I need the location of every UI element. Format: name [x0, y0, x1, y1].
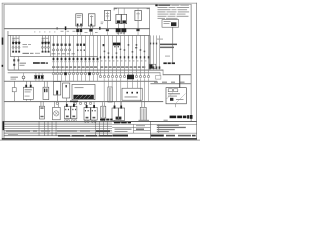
- L4 step-down right: [162, 70, 165, 76]
- right cable run L8: [150, 83, 190, 84]
- sheet edge left: [1, 3, 4, 140]
- wire label text row B right: [100, 66, 145, 68]
- company text line 1: [157, 125, 179, 126]
- B2 internal marks: [44, 89, 45, 93]
- B4 wire down: [65, 98, 68, 101]
- title block h-line 4: [134, 129, 151, 131]
- title block h-line 5: [112, 132, 197, 134]
- C2b: [91, 107, 97, 120]
- resistor bank R2 hatched: [140, 107, 146, 121]
- dimension arrow right: [147, 8, 149, 11]
- label midleft gray: [20, 63, 27, 64]
- X4 stub wires: [35, 73, 37, 75]
- aux contact 3: [18, 59, 20, 61]
- enclosure E1 drop wire: [178, 75, 181, 88]
- Q2 pole circles: [41, 46, 43, 48]
- aux contact 2: [13, 64, 15, 66]
- frame right border: [190, 4, 193, 121]
- B6 internal text: [125, 96, 138, 97]
- wire label text row A left: [52, 61, 98, 62]
- B3 wire down: [56, 95, 59, 101]
- X2 filled terminal b: [88, 72, 91, 75]
- gray text right of bar1: [139, 120, 150, 121]
- relay box K2: [88, 14, 95, 26]
- G1 cross: [55, 112, 59, 116]
- P1 wires up: [40, 102, 43, 107]
- contact marks under K3: [106, 29, 109, 31]
- label between breakers: [23, 44, 28, 45]
- C1b post: [73, 104, 75, 107]
- bus L9 bottom main: [4, 101, 163, 102]
- B5 internal text: [75, 87, 84, 88]
- junction box B6 wide: [122, 88, 142, 100]
- K5 internal symbol: [137, 12, 140, 20]
- K1 wires to bus: [76, 26, 79, 29]
- fuse F1 on bus: [65, 26, 67, 30]
- contactor pair C2a: [84, 107, 90, 120]
- label row above terminals: [52, 53, 56, 54]
- label left of K3: [101, 21, 104, 24]
- sheet edge right: [195, 3, 198, 140]
- title band dark bar 2: [114, 122, 120, 124]
- R1 feed wires: [101, 102, 104, 106]
- switch bank S1 contacts: [53, 44, 71, 51]
- legend box: [162, 20, 179, 28]
- bus L4: [8, 70, 164, 71]
- B6 terminal dots: [126, 92, 128, 94]
- revision table: [4, 121, 112, 137]
- schematic left border wire: [7, 31, 10, 70]
- sub-panel left edge wire: [9, 35, 12, 57]
- wire drops below X2 circles: [53, 75, 97, 81]
- control transformer T1: [113, 43, 121, 46]
- terminal circle stub wires: [22, 73, 24, 76]
- bus L7: [4, 81, 157, 82]
- relay box K5: [135, 10, 141, 20]
- contactor cluster under K4: [116, 28, 121, 32]
- aux circles under B5: [74, 102, 76, 104]
- Q2 feeder wires up: [41, 35, 44, 42]
- single terminal circle far left: [22, 76, 25, 79]
- title cell text row 3: [115, 131, 128, 132]
- notes line 3: [158, 9, 171, 10]
- title block v-line a: [132, 124, 134, 133]
- meter device M1: [149, 64, 156, 68]
- K2 internal symbol: [90, 15, 93, 23]
- vertical wires group W1 (x=53.5..97.5): [53, 35, 97, 71]
- right stub terminals: [150, 66, 161, 68]
- wire label text row B left: [52, 66, 97, 68]
- title block h-line 2: [112, 123, 197, 125]
- relay box K1: [76, 14, 83, 26]
- title block v-line c: [158, 124, 160, 133]
- E1 internal dark tap: [170, 98, 173, 101]
- slim instrument P1: [40, 106, 45, 119]
- notes block N1 bullet: [155, 4, 157, 6]
- breaker Q1 cap: [12, 41, 21, 44]
- Q1 label: [12, 38, 15, 39]
- wire label text row A right: [100, 60, 146, 61]
- frame top border: [4, 3, 192, 6]
- K4 riser wires to dimension line: [117, 8, 119, 14]
- C2 bottom circles: [84, 120, 86, 122]
- title block v-line b: [149, 121, 152, 138]
- G1 lamp circle: [54, 111, 59, 116]
- title block h-line 3: [112, 127, 150, 129]
- dimension arrow left: [115, 8, 117, 11]
- C1 bottom circles: [65, 119, 67, 121]
- bus L6 right section: [163, 74, 191, 75]
- contact marks on W2 wires: [100, 56, 149, 58]
- Q2 poles: [41, 44, 44, 53]
- K4a dark bottom: [117, 20, 121, 23]
- contactor symbol under K2: [89, 29, 92, 32]
- Q2 lower contacts: [42, 51, 44, 53]
- scattered contact dashes on W2 wires: [104, 44, 146, 54]
- faint label row under bus left: [34, 31, 35, 32]
- R2 wires up: [141, 102, 144, 108]
- X4 frame: [34, 75, 44, 79]
- circle under B3: [56, 102, 58, 104]
- R1 hatch: [101, 107, 104, 117]
- phase label dashes right: [163, 62, 166, 64]
- company text line 4: [157, 131, 169, 132]
- K5 riser wire: [137, 8, 139, 10]
- junction stub box right: [156, 76, 161, 80]
- tick on bus left: [57, 27, 58, 29]
- C1b: [71, 106, 77, 118]
- C2 internal contacts: [86, 117, 89, 119]
- E1 terminal sq 1: [168, 89, 172, 92]
- P1 internal ticks: [40, 107, 43, 108]
- dark label dashes midleft: [33, 62, 40, 64]
- wire from legend box down: [172, 27, 175, 62]
- enclosure E1 box: [166, 88, 186, 104]
- D1 wire: [13, 81, 16, 87]
- contact on wire 103: [103, 44, 105, 46]
- E1 bottom stub wire: [174, 104, 177, 107]
- K4 wires to bus: [117, 24, 120, 29]
- title band dark bar 1: [100, 119, 105, 121]
- indicator G1 box: [53, 107, 61, 119]
- fuse F2 on bus: [99, 27, 100, 30]
- binding mark left edge bottom: [3, 121, 5, 130]
- label text left of terminal: [11, 77, 19, 78]
- K2 terminal dot: [90, 24, 92, 26]
- cluster drop stubs to L2: [65, 30, 138, 35]
- legend box content text: [164, 21, 171, 22]
- sheet edge top: [2, 2, 197, 5]
- K5 wire to bus: [137, 21, 140, 29]
- notes line 5: [158, 14, 169, 15]
- twin box K4b: [122, 14, 127, 23]
- K1 internal text: [77, 15, 82, 16]
- C1 internal contacts: [66, 116, 69, 118]
- sub-panel bottom bus L3: [10, 55, 98, 58]
- contact under K5: [136, 29, 139, 31]
- X2 filled terminal a: [64, 72, 67, 75]
- distribution bus L2: [8, 35, 150, 36]
- bus L5: [8, 71, 161, 74]
- connector J1 dark block: [127, 75, 134, 80]
- relay pair C3a: [112, 108, 118, 120]
- heater box B5 wide: [72, 84, 95, 99]
- E1 hatch: [167, 93, 186, 104]
- resistor bank R1 hatched: [101, 106, 106, 118]
- C2a post: [86, 105, 88, 108]
- frame left border: [3, 4, 6, 138]
- title cell text row 1: [136, 125, 145, 126]
- title cell text row 2: [115, 129, 132, 130]
- feeder drop wire right: [148, 8, 151, 70]
- B1 bottom stubs: [25, 100, 27, 102]
- terminal strip X3 circles right: [99, 75, 149, 77]
- K4b dark bottom: [122, 20, 126, 23]
- right zone label text line 2: [160, 47, 174, 49]
- Q1 lower contacts: [12, 51, 14, 53]
- B5 dark heater band: [73, 95, 93, 99]
- R1 bottom marks: [101, 119, 102, 121]
- breaker Q2 cap: [41, 41, 50, 44]
- Q2 label: [42, 38, 45, 39]
- terminal strip X2 circles left: [52, 72, 98, 74]
- control box B1: [23, 87, 33, 99]
- notes line 6: [158, 15, 167, 18]
- Q1 poles: [12, 44, 15, 53]
- sheet number box line: [112, 137, 197, 139]
- bottom id dark text right: [151, 135, 164, 137]
- C1a post: [66, 104, 68, 107]
- B1 post 1: [25, 85, 27, 88]
- V1 hatch lines: [108, 88, 111, 101]
- control box B2: [43, 87, 49, 99]
- B1 internal text: [25, 89, 32, 90]
- dimension end tick left: [113, 8, 116, 11]
- notes line 4: [158, 11, 166, 12]
- cable run text ticks: [154, 82, 158, 83]
- title block top line: [112, 121, 197, 122]
- R2 hatch: [141, 108, 144, 120]
- fold mark left edge: [2, 38, 4, 45]
- device box B3: [53, 82, 60, 95]
- bottom id dark text left: [113, 135, 129, 137]
- coil box K3: [104, 10, 110, 20]
- contactor symbol under K1: [76, 29, 79, 32]
- revision entry text: [6, 131, 30, 132]
- device box B4: [63, 83, 70, 98]
- small text right mid: [157, 39, 163, 40]
- centre mark left edge: [2, 65, 3, 67]
- K2 wires to bus: [89, 26, 92, 29]
- D1 wire down: [13, 92, 16, 102]
- sheet bottom scan shadow: [0, 139, 200, 142]
- B1 wires: [25, 81, 28, 85]
- revision table column lines: [39, 121, 108, 136]
- G1 wires up: [53, 102, 56, 108]
- company text line 2: [157, 127, 186, 128]
- drawing number bold text: [170, 116, 177, 119]
- label under bus row: [61, 31, 64, 32]
- aux device column left: [13, 57, 16, 70]
- C2b post: [93, 105, 95, 108]
- K3 wire to bus: [106, 21, 109, 29]
- aux device column 2: [17, 57, 20, 70]
- right zone label text line 1: [160, 44, 177, 46]
- B1 post 2: [30, 85, 32, 88]
- M1 dark fill: [150, 65, 153, 69]
- Q1 pole circles: [12, 46, 14, 48]
- L9 junction dark segment: [70, 101, 78, 103]
- wire drops below X3 circles: [104, 78, 149, 105]
- cable dimension line: [114, 7, 150, 10]
- X2 bracket marks: [54, 72, 57, 75]
- B4 internal mark: [65, 85, 67, 87]
- right stub wires x=150.5-159.5: [150, 35, 159, 69]
- contact set S2: [77, 44, 86, 46]
- E1 terminal sq 2: [174, 89, 178, 92]
- sheet edge bottom: [2, 138, 197, 140]
- L5 step-down to L6 right: [159, 72, 162, 75]
- sub-panel right edge wire: [49, 35, 52, 56]
- notes block N1 line 1: [158, 5, 170, 6]
- C3b: [119, 108, 125, 120]
- notes line 7: [158, 18, 166, 19]
- K1 terminal dots: [77, 24, 79, 26]
- C3 dark contacts: [116, 117, 118, 120]
- terminal block X4 dark squares: [35, 76, 37, 79]
- aux contact 1: [13, 59, 15, 61]
- C3b post: [120, 106, 122, 109]
- main bus L1: [4, 28, 150, 29]
- notes line 2: [158, 7, 168, 8]
- K3 internal symbol: [106, 12, 109, 20]
- aux contacts circles under K4: [117, 32, 119, 34]
- C3a post: [114, 106, 116, 109]
- contactor pair C1a: [64, 106, 70, 118]
- vertical wires group W2 (x=100.5..148.5): [100, 35, 148, 75]
- terminal strip X1 ticks: [53, 58, 99, 60]
- twin box K4a: [116, 14, 121, 23]
- B2 wires: [43, 81, 46, 87]
- Q1 feeder wires up: [12, 35, 15, 42]
- vertical hatch device V1: [108, 87, 112, 102]
- legend box dark symbol: [171, 22, 176, 26]
- right stub contact dashes: [150, 43, 157, 45]
- left device D1: [12, 88, 16, 92]
- C3 bottom circles: [114, 121, 116, 123]
- S2 lower marks: [77, 49, 78, 51]
- B3 internal dark mark: [56, 91, 58, 95]
- company text line 3: [157, 129, 175, 130]
